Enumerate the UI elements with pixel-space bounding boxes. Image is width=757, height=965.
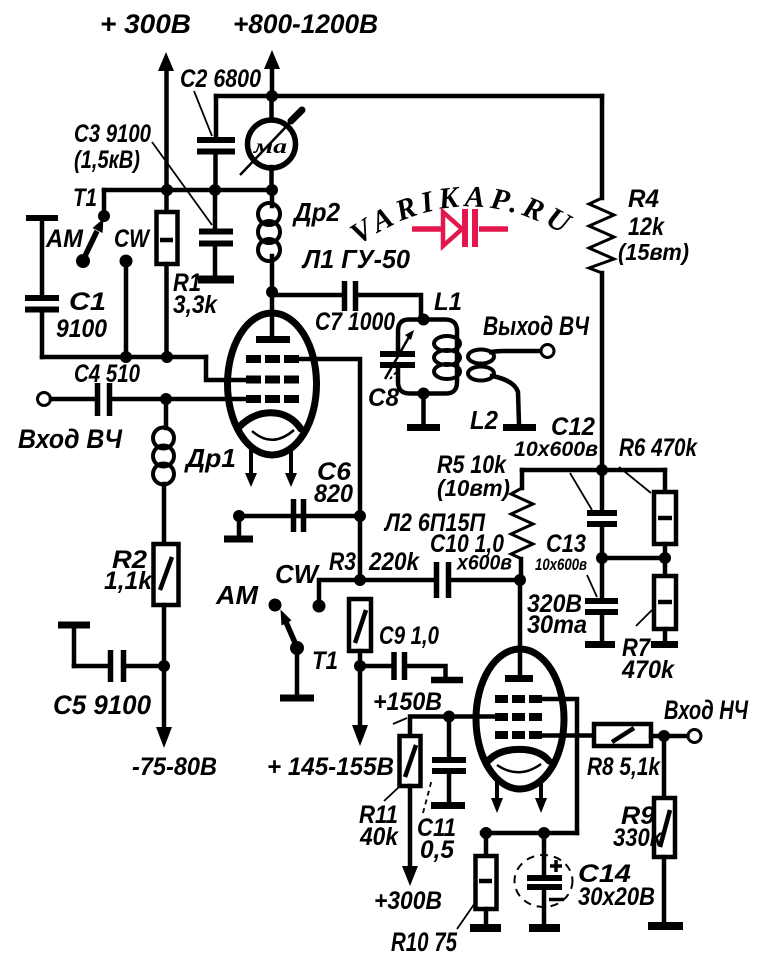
- svg-text:C5 9100: C5 9100: [53, 690, 151, 720]
- wire CW contact branch: [120, 255, 133, 358]
- switch T1 position 1: [73, 184, 110, 268]
- capacitor C10: [437, 562, 527, 598]
- wire HT node y470: [522, 464, 665, 492]
- node RF input terminal: [38, 393, 51, 406]
- svg-text:330k: 330k: [613, 824, 663, 852]
- svg-text:30ma: 30ma: [527, 611, 587, 639]
- wire cathode bus y833: [480, 827, 577, 839]
- inductor L1 coil: [434, 336, 460, 379]
- label 320V 30ma: [527, 590, 587, 639]
- svg-text:Др2: Др2: [292, 197, 340, 227]
- svg-text:Л1 ГУ-50: Л1 ГУ-50: [301, 244, 410, 274]
- tube L2 envelope: [476, 649, 564, 789]
- svg-text:R3: R3: [329, 548, 356, 576]
- svg-text:1,1k: 1,1k: [104, 567, 153, 595]
- svg-text:C8: C8: [368, 384, 399, 412]
- svg-text:+300В: +300В: [374, 887, 442, 915]
- svg-text:470k: 470k: [621, 656, 675, 684]
- resistor R8: [542, 724, 688, 746]
- svg-text:10х600в: 10х600в: [535, 555, 587, 574]
- svg-text:+ 300В: + 300В: [100, 9, 191, 39]
- capacitor C3: [198, 190, 234, 280]
- tube L1 grid row 1: [246, 355, 299, 363]
- capacitor C11: [431, 717, 466, 806]
- wire leader R6: [619, 467, 651, 493]
- svg-text:-75-80В: -75-80В: [132, 753, 217, 781]
- tube L2 grid row 1: [495, 695, 542, 703]
- svg-text:R6 470k: R6 470k: [619, 434, 698, 462]
- svg-text:Л2 6П15П: Л2 6П15П: [383, 509, 486, 537]
- resistor R3: [349, 599, 371, 672]
- label C14 30x20V: [578, 860, 655, 911]
- meter U1 mA: [240, 96, 303, 190]
- label R2 1,1k: [104, 546, 153, 595]
- node LF input terminal: [688, 730, 701, 743]
- wire +300V arrow: [158, 52, 174, 212]
- capacitor C6: [294, 499, 304, 532]
- svg-text:Вход ВЧ: Вход ВЧ: [18, 424, 123, 454]
- capacitor C7: [272, 281, 421, 319]
- wire leader C11: [423, 779, 432, 813]
- svg-text:С7 1000: С7 1000: [315, 308, 395, 336]
- resistor R9: [648, 736, 683, 926]
- svg-text:+800-1200В: +800-1200В: [233, 9, 378, 39]
- wire leader R7: [636, 610, 652, 626]
- tube L1 envelope: [228, 313, 317, 455]
- tube L2 heater arc: [497, 764, 541, 772]
- inductor L2 coil: [468, 350, 494, 381]
- svg-text:R10 75: R10 75: [391, 927, 458, 957]
- svg-text:Др1: Др1: [184, 443, 236, 473]
- label R1 3,3k: [173, 269, 218, 319]
- tube L2 anode bar: [505, 675, 533, 682]
- wire screen feed x520: [518, 580, 523, 677]
- svg-text:Вход НЧ: Вход НЧ: [664, 695, 749, 725]
- tube L1 grid row 3: [246, 395, 299, 403]
- svg-text:CW: CW: [114, 225, 151, 253]
- label C12 10x600в: [514, 413, 598, 461]
- svg-text:х600в: х600в: [456, 552, 512, 575]
- svg-text:820: 820: [314, 480, 353, 508]
- tube L1 anode: [256, 294, 290, 340]
- svg-text:+ 145-155В: + 145-155В: [267, 753, 394, 781]
- wire leader C3: [152, 142, 212, 225]
- wire grid bus y190: [104, 184, 278, 214]
- svg-text:3,3k: 3,3k: [173, 291, 218, 319]
- label R5 10k (10вт): [437, 451, 510, 501]
- tube L1 filament lead arrows: [245, 449, 297, 487]
- tube L1 cathode arc: [239, 413, 301, 429]
- capacitor C9: [360, 652, 463, 680]
- svg-text:C12: C12: [551, 413, 595, 441]
- switch T1 position 2: [215, 559, 326, 698]
- wire leader R10: [457, 903, 475, 929]
- tank circuit frame L1/C8: [398, 314, 457, 400]
- capacitor C8 variable: [380, 330, 415, 379]
- capacitor C12: [587, 470, 617, 558]
- node AM antenna bar: [26, 218, 58, 295]
- svg-text:АМ: АМ: [45, 225, 84, 253]
- svg-text:R4: R4: [628, 185, 659, 213]
- ground tank: [407, 394, 440, 428]
- svg-text:220k: 220k: [368, 548, 420, 576]
- label C13 10x600в: [535, 530, 587, 574]
- svg-text:C9 1,0: C9 1,0: [379, 622, 439, 650]
- resistor R10: [470, 833, 501, 928]
- svg-text:(1,5кВ): (1,5кВ): [74, 146, 140, 174]
- watermark VARIKAP.RU: [344, 180, 580, 251]
- label C3 9100 (1,5кВ): [74, 120, 151, 174]
- wire grid bus y357: [42, 351, 247, 380]
- wire CW bus y580: [319, 574, 433, 603]
- wire bias output arrow: [156, 666, 172, 748]
- svg-text:30х20В: 30х20В: [578, 883, 655, 911]
- resistor R7: [651, 558, 678, 645]
- svg-text:CW: CW: [275, 559, 320, 589]
- svg-text:12k: 12k: [628, 213, 665, 241]
- tube L1 grid row 2: [246, 376, 299, 384]
- label C1 9100: [56, 288, 107, 343]
- svg-text:(10вт): (10вт): [437, 475, 510, 501]
- wire +800V arrow: [264, 50, 280, 96]
- capacitor C4: [51, 383, 247, 416]
- capacitor C1: [25, 298, 59, 357]
- tube L1 heater arc: [252, 430, 294, 440]
- capacitor C5: [58, 625, 170, 682]
- svg-text:40k: 40k: [359, 823, 399, 851]
- resistor R11: [400, 736, 421, 886]
- ground L2: [492, 376, 536, 428]
- diode watermark varicap symbol: [412, 209, 508, 247]
- wire node y558: [596, 552, 671, 564]
- capacitor C2: [197, 96, 235, 190]
- svg-text:L2: L2: [470, 405, 498, 435]
- wire leader C13: [587, 575, 597, 597]
- svg-text:R8 5,1k: R8 5,1k: [587, 753, 661, 781]
- svg-text:C13: C13: [546, 530, 586, 558]
- label R3 220k: [329, 548, 420, 576]
- capacitor C13: [585, 558, 618, 645]
- svg-text:T1: T1: [312, 647, 338, 675]
- resistor R1: [157, 212, 178, 357]
- tube L2 grid row 3: [495, 731, 542, 739]
- label R7 470k: [621, 634, 675, 684]
- tube L2 grid row 2: [495, 713, 542, 721]
- wire +145-155V arrow: [352, 666, 368, 746]
- svg-text:T1: T1: [73, 184, 97, 212]
- wire top HT bus y96: [216, 90, 602, 102]
- svg-text:C3 9100: C3 9100: [74, 120, 151, 148]
- inductor Dr2: [258, 190, 280, 298]
- label R9 330k: [613, 802, 663, 852]
- wire leader R11: [384, 787, 399, 801]
- ground cathode: [224, 516, 253, 539]
- label C10 1,0 x600в: [430, 530, 512, 575]
- label R11 40k: [359, 801, 399, 851]
- resistor R4: [589, 96, 614, 470]
- svg-text:+150В: +150В: [373, 688, 442, 716]
- resistor R2: [154, 544, 179, 666]
- svg-text:0,5: 0,5: [420, 836, 455, 864]
- wire L2 grid1 right branch: [542, 699, 577, 833]
- svg-text:C2 6800: C2 6800: [180, 65, 261, 93]
- wire cathode bus y516: [233, 510, 366, 522]
- wire leader +150V: [393, 718, 407, 724]
- capacitor C14 electrolytic: [515, 833, 573, 928]
- svg-text:Выход ВЧ: Выход ВЧ: [483, 311, 590, 341]
- tube L2 cathode arc: [487, 749, 549, 762]
- svg-text:C4 510: C4 510: [74, 360, 140, 388]
- svg-text:10х600в: 10х600в: [514, 438, 598, 461]
- svg-text:C1: C1: [69, 288, 106, 316]
- wire leader C12: [570, 473, 592, 510]
- resistor R5: [511, 470, 533, 579]
- wire screen node y716: [410, 711, 495, 737]
- svg-text:ма: ма: [253, 134, 287, 158]
- svg-text:(15вт): (15вт): [618, 239, 689, 265]
- label C6 820: [314, 458, 353, 508]
- svg-text:АМ: АМ: [215, 580, 259, 610]
- label R4 12k (15вт): [618, 185, 689, 265]
- inductor Dr1: [153, 399, 174, 544]
- svg-text:9100: 9100: [56, 315, 107, 343]
- label C11 0,5: [417, 814, 456, 864]
- wire leader C2: [194, 91, 212, 136]
- resistor R6: [654, 492, 676, 558]
- wire L2 to RF out terminal: [491, 345, 554, 358]
- svg-text:L1: L1: [434, 288, 462, 316]
- wire L1 grid1 to R3 junction: [299, 359, 360, 580]
- tube L2 filament lead arrows: [491, 779, 547, 813]
